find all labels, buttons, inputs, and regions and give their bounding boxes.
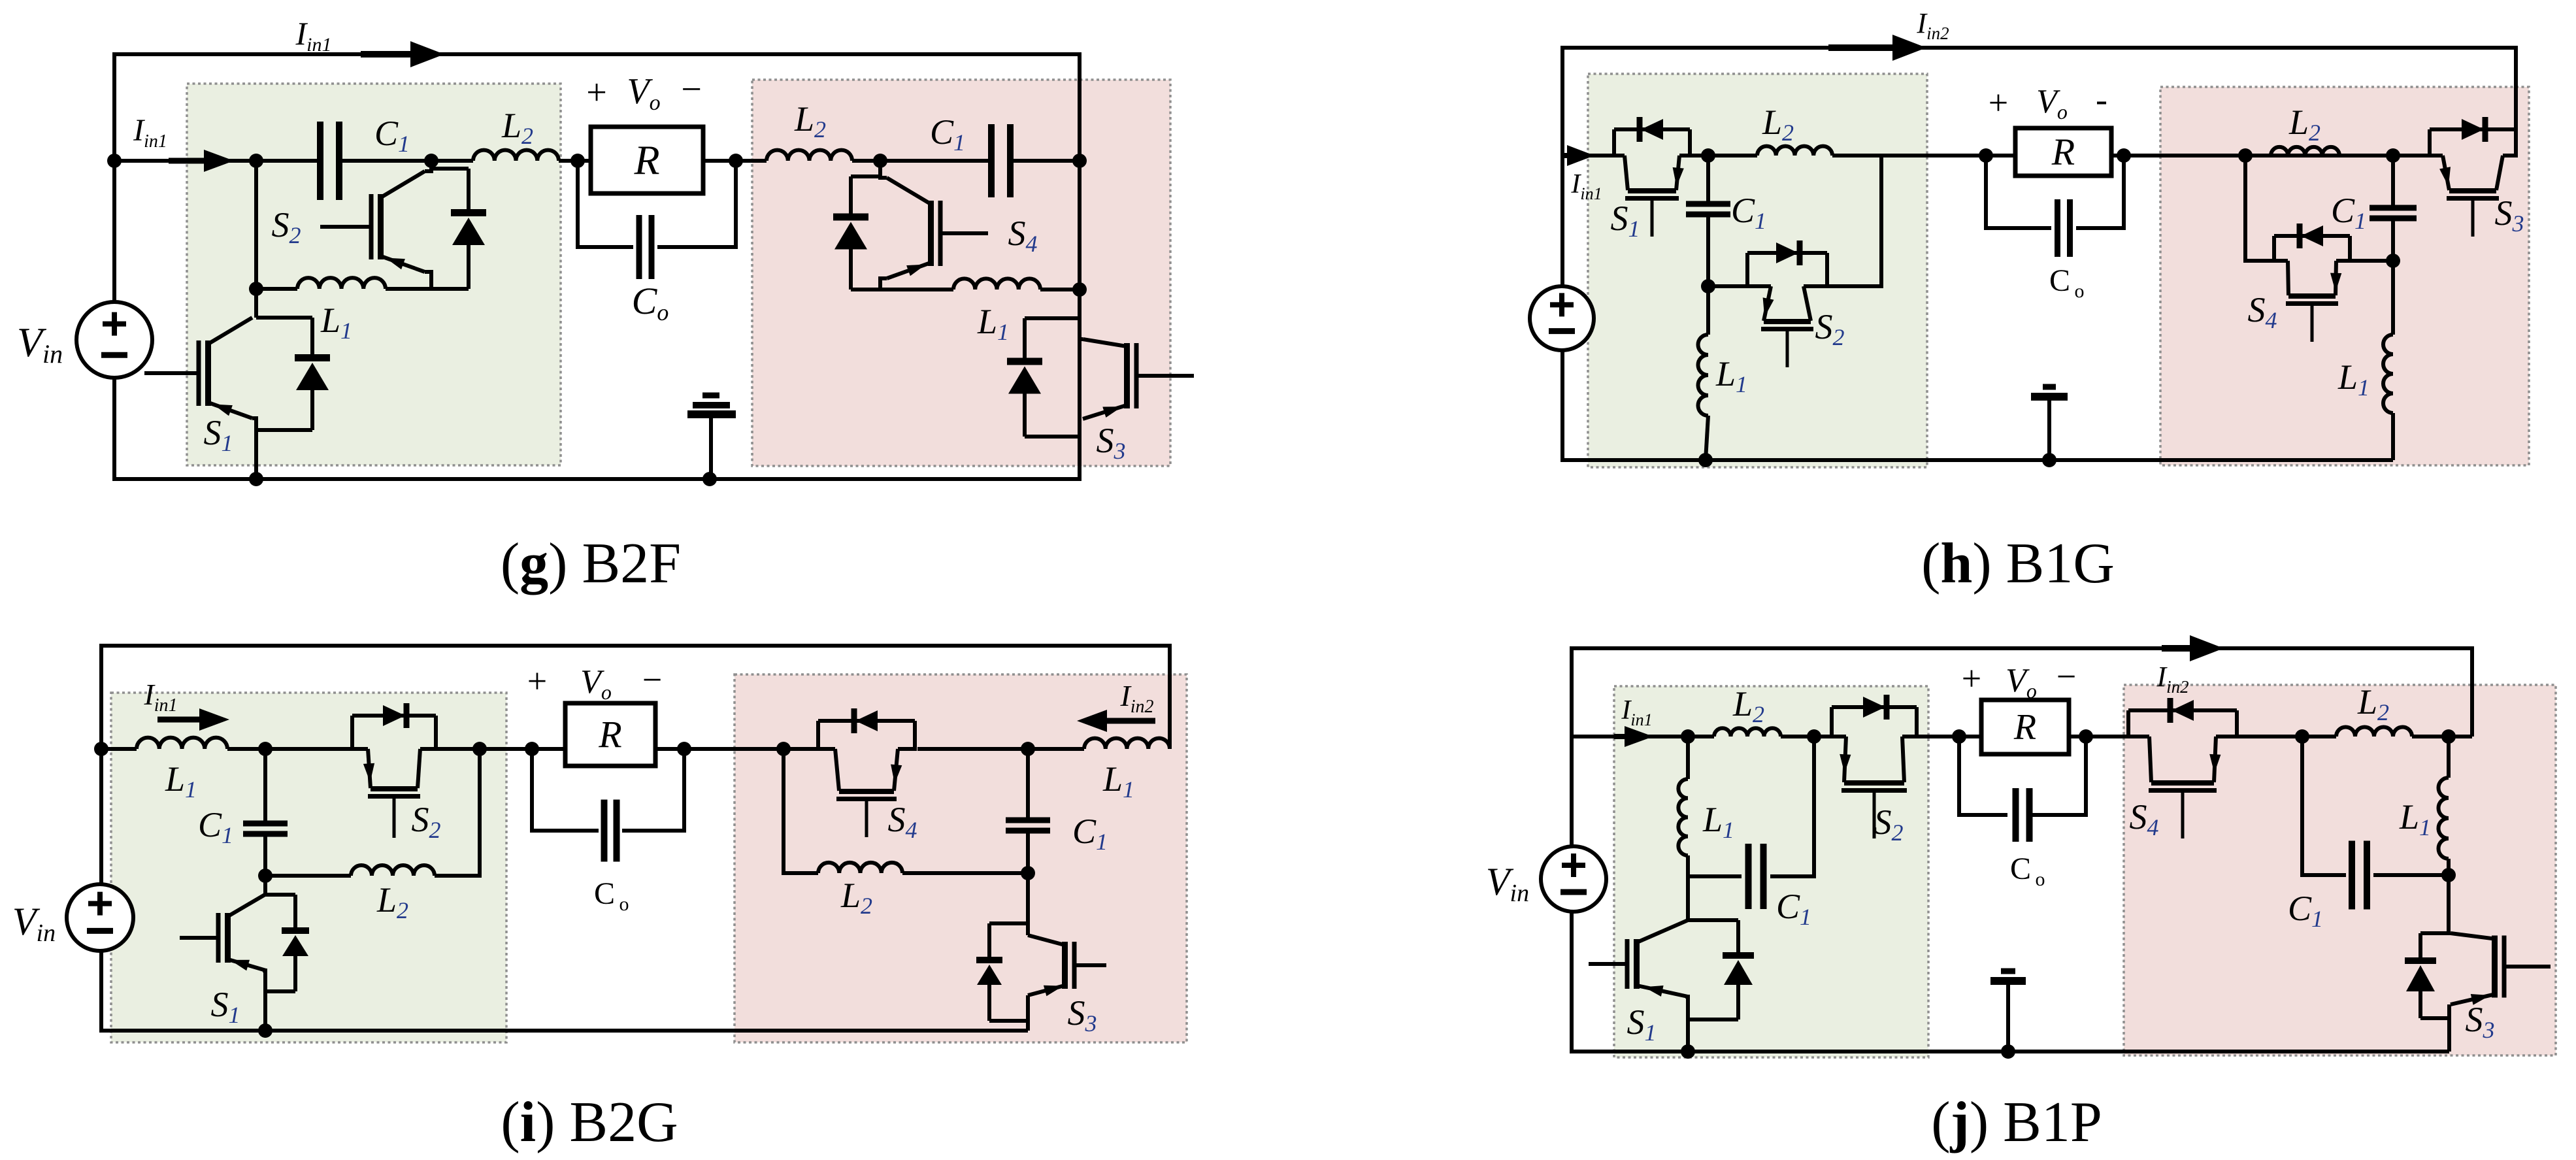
svg-text:R: R [2051, 131, 2075, 173]
svg-text:o: o [619, 893, 629, 915]
transistor S1 (j) [1589, 920, 1688, 997]
label L1 (i) pink [1102, 759, 1134, 803]
inductor L1 (g) right [953, 278, 1040, 290]
node (i) S4 left [776, 742, 791, 756]
wire (i) S4 links [684, 747, 784, 751]
label Iin2 top (h) [1916, 7, 1949, 43]
svg-text:C: C [2049, 263, 2070, 298]
wire (i) outer bottom [101, 749, 1028, 1031]
wire (g) main horizontal [114, 159, 1080, 163]
label Iin2 top (j) [2156, 661, 2188, 697]
wire (g) L1 runs [256, 287, 469, 291]
label C1 (g) right [930, 112, 965, 156]
svg-text:C: C [2010, 852, 2031, 886]
transistor S3 (h) [2428, 117, 2518, 237]
inductor L1 (j) green [1678, 737, 1688, 876]
node (j) R left [1952, 729, 1966, 744]
diode D3 (g) [1007, 318, 1080, 437]
ground (j) [1990, 971, 2026, 1052]
node (h) ground [2042, 453, 2056, 467]
node (h) L2 pink right [2386, 148, 2400, 163]
transistor S4 (j) [2126, 698, 2239, 838]
node (g) L1 left [249, 282, 263, 296]
label Vin (j) [1486, 860, 1529, 907]
shaded region pink cell (g) [752, 80, 1170, 466]
wire (i) S1 emitter [263, 970, 265, 1031]
label Vo (j) [1962, 657, 2076, 703]
svg-text:R: R [598, 714, 621, 756]
node (j) R right [2079, 729, 2093, 744]
resistor R (i) [565, 703, 655, 766]
svg-text:(g) B2F: (g) B2F [501, 532, 681, 595]
node (h) C1 bottom [1701, 279, 1715, 293]
caption (h) [1921, 532, 2115, 595]
label L2 (h) green [1762, 103, 1794, 146]
wire (g) S4 emitter [880, 278, 887, 290]
svg-text:−: − [2056, 657, 2076, 696]
label L2 (j) pink [2357, 682, 2389, 725]
label L1 (g) right [977, 302, 1009, 345]
label S1 (g) [204, 413, 233, 456]
label Iin1 top (g) [295, 15, 332, 56]
shaded region green cell (i) [111, 693, 506, 1042]
label Iin1 (h) [1570, 169, 1602, 203]
wire (j) S1 collector [1686, 876, 1690, 920]
wire (j) C1 row [1688, 737, 1814, 876]
label Vo (h) [1989, 80, 2107, 124]
label Co (j) [2010, 852, 2045, 890]
label L2 (g) right [794, 99, 826, 142]
label S3 (j) [2466, 1000, 2495, 1043]
label S2 (j) [1874, 803, 1904, 846]
current arrow Iin2 top (h) [1828, 35, 1926, 61]
wire (h) S4 right link [2350, 259, 2393, 263]
inductor L2 (j) pink [2336, 727, 2412, 737]
capacitor C1 (j) green [1745, 844, 1767, 909]
node (i) input [94, 742, 108, 756]
node (h) R right [2117, 148, 2131, 163]
node (h) R left [1979, 148, 1993, 163]
transistor S2 (j) [1830, 695, 1919, 838]
label L1 (i) green [165, 759, 197, 803]
node (h) bottom left [1698, 453, 1713, 467]
wire (h) S2 right link [1827, 156, 1881, 286]
svg-text:+: + [1989, 83, 2008, 122]
node (g) C [570, 154, 585, 168]
svg-text:+: + [527, 661, 547, 701]
svg-text:−: − [642, 660, 662, 699]
caption (g) [501, 532, 681, 595]
wire (h) outer top [1562, 48, 2516, 161]
node (g) bottom left [249, 472, 263, 486]
label L1 (j) green [1702, 800, 1734, 843]
transistor S2 (g) [320, 171, 425, 272]
label C1 (h) pink [2331, 191, 2366, 234]
node (h) C1 pink bottom [2386, 254, 2400, 268]
label Vin (g) [17, 319, 63, 369]
resistor R (j) [1981, 700, 2069, 754]
label L1 (h) pink [2337, 357, 2370, 401]
label L2 (g) left [501, 106, 533, 149]
transistor S4 (h) [2272, 224, 2352, 342]
label Iin1 (j) [1621, 695, 1652, 729]
transistor S2 (h) [1745, 240, 1829, 367]
node (g) F [1072, 154, 1087, 168]
label Iin1 inner (g) [133, 113, 167, 152]
label S4 (g) [1008, 214, 1038, 257]
inductor L1 (j) pink [2439, 737, 2449, 875]
voltage source Vin (i) [67, 884, 133, 951]
inductor L2 (h) green [1757, 146, 1832, 156]
wire (j) left bottom [1572, 737, 2449, 1052]
label S3 (i) [1068, 993, 1097, 1036]
node (j) bottom [1681, 1044, 1695, 1059]
svg-text:−: − [681, 69, 702, 110]
capacitor C1 (i) green [243, 749, 288, 876]
inductor L1 (i) pink [1084, 738, 1170, 749]
svg-text:o: o [2075, 280, 2085, 302]
transistor S3 (j) [2451, 933, 2551, 1005]
label L2 (i) pink [840, 876, 872, 919]
label Co (g) [632, 280, 669, 325]
diode D3 (i) [976, 923, 1028, 1021]
capacitor Co (h) [1986, 156, 2124, 257]
current arrow Iin1 (h) [1563, 145, 1594, 166]
inductor L1 (h) pink [2383, 261, 2393, 460]
voltage source Vin (j) [1541, 846, 1606, 912]
node (i) D [1021, 742, 1035, 756]
label C1 (j) pink [2288, 889, 2323, 932]
shaded region pink cell (j) [2124, 685, 2556, 1055]
capacitor C1 (j) pink [2349, 841, 2370, 910]
svg-text:+: + [1962, 659, 1981, 698]
label L1 (j) pink [2399, 797, 2431, 840]
node (g) E [873, 154, 887, 168]
node (i) A [258, 742, 272, 756]
wire (g) S2 collector [425, 161, 431, 171]
transistor S4 (i) [816, 708, 917, 837]
shaded region pink cell (i) [735, 674, 1187, 1042]
voltage source Vin (g) [76, 302, 152, 378]
wire (h) main [1562, 154, 2432, 157]
wire (i) L1 pink link [1028, 747, 1084, 751]
transistor S4 (g) [887, 178, 988, 278]
label S4 (j) [2130, 797, 2159, 840]
current arrow Iin1 top (g) [361, 41, 444, 67]
wire (g) L1 right runs [851, 288, 1080, 291]
node (g) A [249, 154, 263, 168]
caption (i) [501, 1091, 678, 1154]
wire (j) S3 collector [2449, 875, 2451, 933]
inductor L1 (g) left [297, 278, 386, 289]
wire (i) S1 collector [263, 876, 267, 895]
wire (g) outer loop [114, 54, 1080, 161]
label L2 (j) green [1732, 684, 1764, 727]
inductor L2 (i) green [351, 865, 435, 876]
label Co (h) [2049, 263, 2085, 302]
capacitor Co (g) [578, 161, 736, 279]
shaded region pink cell (h) [2160, 87, 2529, 465]
current arrow Iin1 (j) [1614, 726, 1653, 747]
capacitor C1 (g) left [317, 122, 342, 200]
wire (h) S4 left branch [2245, 156, 2275, 261]
shaded region green cell (g) [187, 84, 561, 465]
current arrow Iin1 inner (g) [169, 150, 234, 172]
label S3 (h) [2495, 193, 2524, 237]
label S3 (g) [1097, 421, 1126, 464]
svg-text:+: + [586, 73, 607, 113]
node (j) C [2295, 729, 2309, 744]
label S4 (i) [888, 800, 917, 843]
label Co (i) [594, 876, 629, 915]
label S4 (h) [2248, 290, 2277, 333]
resistor R (h) [2015, 128, 2111, 176]
label L2 (i) green [376, 880, 408, 923]
node (h) L2 pink left [2238, 148, 2253, 163]
ground (h) [2031, 387, 2068, 460]
label L1 (g) left [320, 301, 352, 344]
label S2 (i) [412, 800, 441, 843]
node (g) input [107, 154, 122, 168]
current arrow Iin2 (i) [1077, 710, 1155, 732]
transistor S2 (i) [350, 703, 438, 838]
resistor R (g) [591, 127, 703, 193]
transistor S3 (g) [1083, 339, 1194, 419]
label Iin1 (i) [143, 678, 177, 716]
capacitor C1 (h) green [1686, 156, 1730, 286]
node (h) C1 top [1701, 148, 1715, 163]
label S2 (g) [272, 205, 301, 248]
capacitor C1 (g) right [988, 124, 1014, 197]
label Vo (g) [586, 69, 702, 115]
node (i) R right [677, 742, 691, 756]
wire (i) L2 pink row [784, 749, 1028, 873]
label S1 (h) [1611, 199, 1640, 242]
inductor L2 (g) right [767, 150, 852, 161]
wire (i) outer top [101, 646, 1170, 749]
capacitor C1 (i) pink [1006, 749, 1050, 873]
wire (g) S2 branch [254, 161, 258, 289]
voltage source Vin (h) [1530, 286, 1594, 350]
capacitor C1 (h) pink [2370, 156, 2417, 261]
node (i) R left [525, 742, 539, 756]
node (i) bottom [258, 1023, 272, 1038]
label S2 (h) [1815, 307, 1845, 350]
wire (j) C1 pink branch [2302, 737, 2449, 875]
node (j) L2 right [2441, 729, 2456, 744]
wire (i) main [101, 747, 1028, 751]
diode D1 (g) [256, 318, 330, 430]
wire (i) L2 row [265, 749, 480, 876]
caption (j) [1931, 1091, 2102, 1154]
svg-text:o: o [2036, 869, 2045, 890]
svg-text:(h) B1G: (h) B1G [1921, 532, 2115, 595]
wire (g) S3 collector [1080, 337, 1083, 341]
node (i) E [1021, 866, 1035, 880]
svg-text:R: R [633, 137, 659, 184]
inductor L2 (h) pink [2271, 147, 2339, 156]
node (j) ground [2001, 1044, 2015, 1059]
inductor L2 (g) left [473, 150, 559, 161]
node (i) B [258, 869, 272, 883]
current arrow Iin2 top (j) [2162, 635, 2224, 661]
wire (g) outer bottom [114, 161, 1080, 479]
node (g) ground [702, 472, 717, 486]
wire (g) S1 collector [254, 289, 258, 318]
wire (j) S3 emitter [2447, 1004, 2451, 1052]
ground (g) [687, 395, 736, 479]
inductor L2 (j) green [1714, 728, 1781, 737]
diode D3 (j) [2405, 933, 2449, 1018]
transistor S1 (h) [1612, 117, 1692, 237]
shaded region green cell (h) [1588, 74, 1927, 467]
diode D1 (j) [1688, 920, 1754, 1019]
svg-text:-: - [2096, 80, 2107, 119]
wire (j) outer top [1572, 648, 2472, 737]
svg-text:R: R [2013, 707, 2036, 748]
label L1 (h) green [1715, 354, 1747, 397]
shaded region green cell (j) [1614, 686, 1928, 1057]
inductor L1 (h) green [1698, 286, 1709, 460]
label C1 (h) green [1731, 191, 1766, 234]
capacitor Co (i) [532, 749, 684, 862]
diode D4 (g) [833, 176, 880, 290]
transistor S1 (i) [180, 894, 266, 970]
diode D1 (i) [265, 895, 309, 991]
label Vin (i) [12, 900, 56, 947]
label C1 (j) green [1776, 887, 1811, 930]
node (j) D [2441, 868, 2456, 882]
wire (j) S1 emitter [1685, 997, 1688, 1052]
wire (g) S1 emitter [252, 418, 256, 479]
node (g) L1 right [1072, 282, 1087, 297]
capacitor Co (j) [1959, 737, 2086, 842]
label C1 (g) left [374, 114, 410, 157]
wire (i) S3 collector [1026, 873, 1030, 935]
wire (g) S2 emitter [425, 272, 431, 289]
node (g) D [729, 154, 743, 168]
transistor S3 (i) [1028, 935, 1106, 996]
label Iin2 (i) [1119, 679, 1153, 717]
label L2 (h) pink [2288, 103, 2320, 146]
wire (h) S2 left link [1708, 284, 1747, 288]
label C1 (i) green [198, 805, 233, 848]
label S1 (i) [211, 985, 240, 1028]
label C1 (i) pink [1072, 812, 1108, 855]
wire (h) left bottom [1562, 156, 2393, 460]
svg-text:C: C [594, 876, 615, 911]
svg-text:(j) B1P: (j) B1P [1931, 1091, 2102, 1154]
wire (i) S3 emitter [1026, 995, 1030, 1031]
current arrow Iin1 (i) [157, 708, 229, 731]
node (j) A [1681, 729, 1695, 744]
label S1 (j) [1627, 1003, 1657, 1046]
inductor L1 (i) green [137, 738, 227, 749]
wire (j) main [1572, 735, 2472, 738]
label Vo (i) [527, 660, 662, 704]
wire (g) S4 collector [880, 161, 887, 178]
svg-text:(i) B2G: (i) B2G [501, 1091, 678, 1154]
inductor L2 (i) pink [818, 863, 902, 873]
node (g) B [424, 154, 438, 168]
node (i) C [472, 742, 487, 756]
diode D2 (g) [431, 161, 486, 289]
transistor S1 (g) [144, 318, 252, 418]
node (j) B [1807, 729, 1821, 744]
